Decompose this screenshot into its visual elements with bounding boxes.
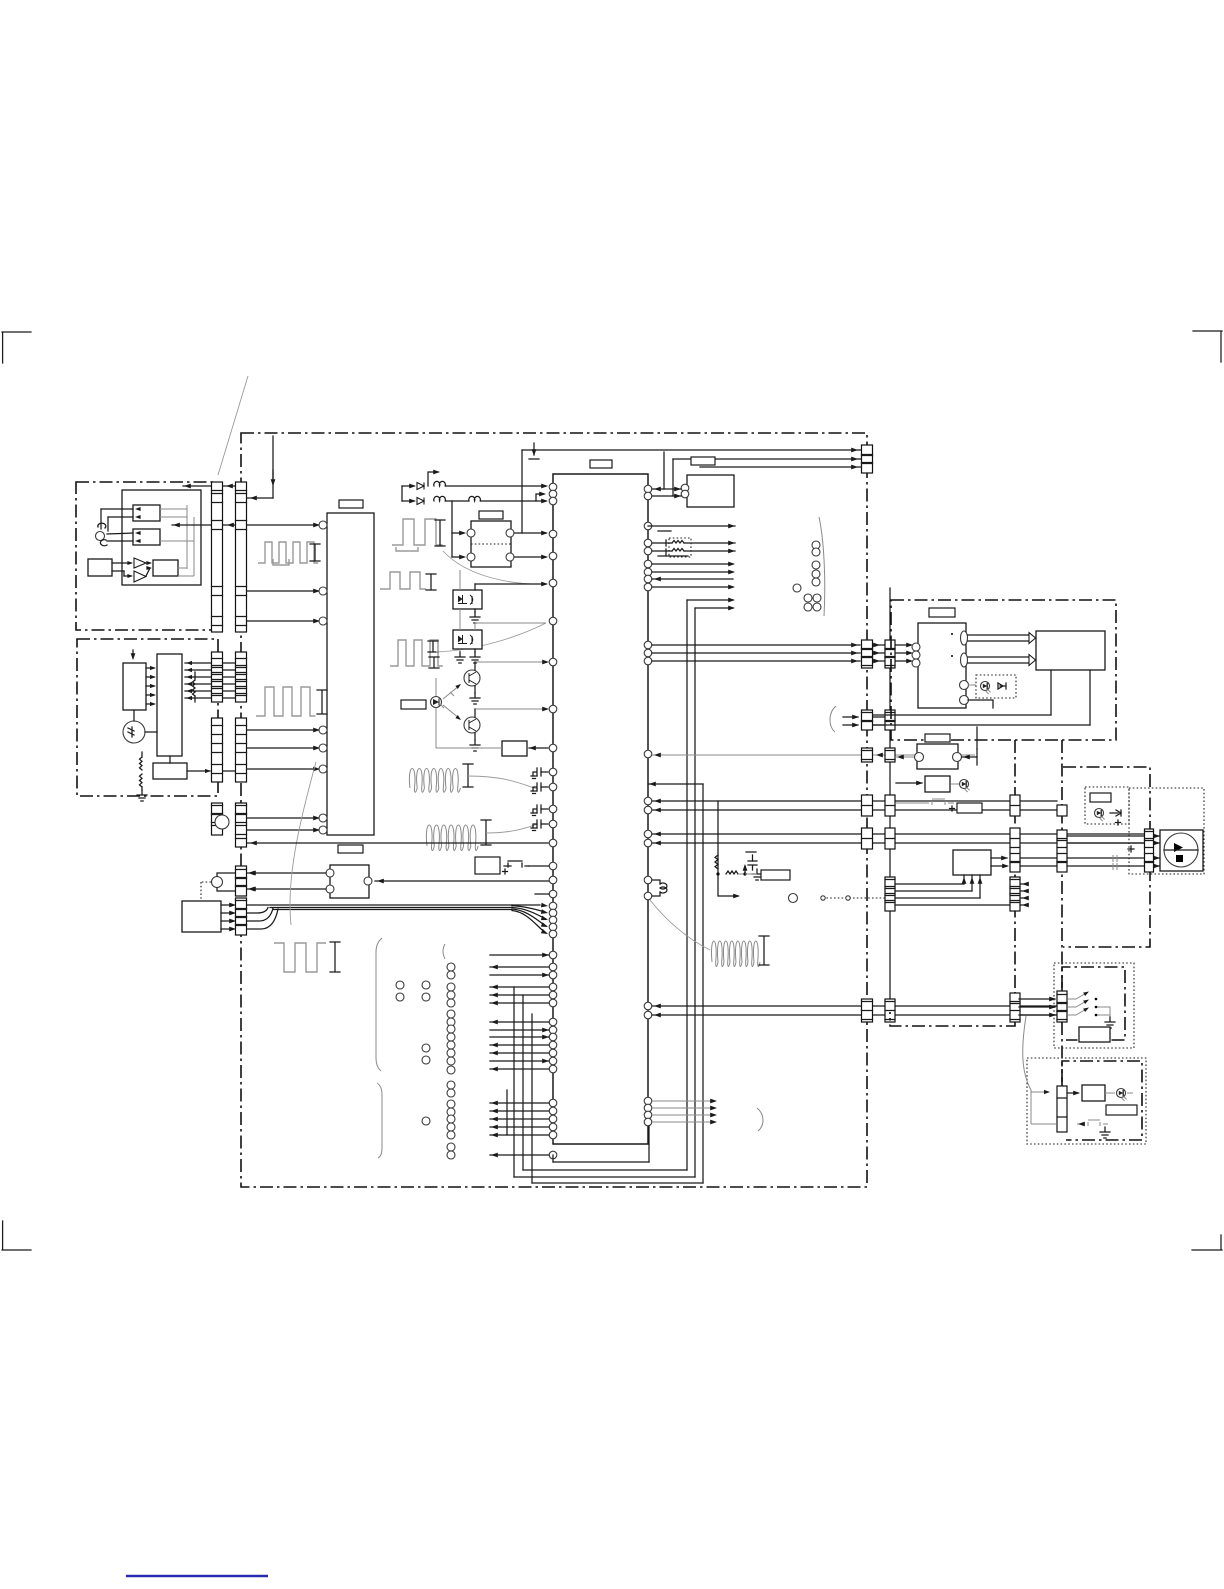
ground (470, 693, 480, 704)
IC pin (549, 1033, 557, 1041)
arrowhead (271, 479, 276, 486)
IC pin (644, 876, 652, 884)
arrowhead (906, 643, 913, 648)
bar2 seg5 (885, 828, 895, 849)
switch stroke (1068, 1008, 1088, 1015)
ground (470, 652, 480, 663)
connector block ticks (1057, 995, 1067, 1020)
wire (223, 770, 235, 772)
wire (490, 986, 549, 988)
IC pin (549, 820, 557, 828)
arrowhead (851, 448, 858, 453)
block pin (319, 521, 327, 529)
arrowhead (710, 1099, 717, 1104)
wire (529, 865, 549, 867)
fan wire (512, 909, 546, 926)
wire (185, 697, 211, 699)
vertical wire (521, 450, 523, 533)
transistor Q2 (464, 717, 480, 733)
tick (665, 540, 667, 555)
coil L1 (409, 769, 460, 793)
wire (490, 1060, 549, 1062)
IC pin (549, 1107, 557, 1115)
connector block ticks (885, 880, 895, 903)
arrowhead (851, 457, 858, 462)
wire (247, 747, 318, 749)
IC pin (644, 657, 652, 665)
arrowhead (710, 1113, 717, 1118)
arrowhead (654, 1004, 661, 1009)
wire (183, 485, 211, 487)
IC pin (549, 971, 557, 979)
IC pin (644, 892, 652, 900)
bus arrowheads (1029, 633, 1036, 666)
wire (459, 649, 461, 652)
wire (247, 829, 318, 831)
free circle (812, 548, 820, 556)
dash-dot box B (77, 639, 218, 796)
tall bracket (377, 1083, 382, 1158)
IC pin (549, 876, 557, 884)
grid circle (447, 1089, 455, 1097)
crop mark bottom-right (1192, 1235, 1222, 1250)
IC pin (549, 916, 557, 924)
IC pin (644, 806, 652, 814)
wire (490, 1134, 549, 1136)
arrowhead (226, 484, 233, 489)
wire (968, 700, 993, 708)
arrowhead (654, 832, 661, 837)
wire (515, 556, 546, 558)
arrowhead (916, 781, 923, 786)
elbow (718, 874, 738, 896)
arrowhead (1154, 841, 1160, 845)
dotted LED box (976, 675, 1016, 698)
grid circle (447, 971, 455, 979)
wire (843, 724, 858, 726)
arrowhead (227, 523, 234, 528)
wire (124, 575, 131, 577)
connector block ticks (236, 901, 247, 926)
wire (1067, 835, 1144, 837)
junction (716, 872, 719, 875)
leader (486, 824, 538, 833)
down-arrow mark (529, 443, 539, 459)
arrowhead (491, 1125, 498, 1130)
wire (648, 525, 735, 527)
wire (896, 660, 911, 662)
connector block ticks (236, 806, 247, 839)
IC pin (644, 1097, 652, 1105)
grid circle (447, 963, 455, 971)
wire (247, 524, 318, 526)
crop mark top-left (2, 332, 31, 363)
vertical (672, 459, 674, 496)
wire (895, 904, 1010, 906)
arrowhead (491, 965, 498, 970)
long vertical (686, 600, 688, 1170)
arrowhead (491, 1001, 498, 1006)
label box (957, 803, 982, 813)
resistor (672, 549, 684, 552)
wire (490, 1068, 549, 1070)
plus (950, 806, 955, 811)
wire (446, 500, 468, 502)
IC pin (644, 797, 652, 805)
wrap wire (553, 1161, 649, 1163)
wire (223, 697, 235, 699)
grid circle (447, 1025, 455, 1033)
bus wire (700, 466, 861, 468)
box T1 (687, 475, 734, 507)
driver box (157, 654, 182, 756)
arrowhead (978, 877, 983, 884)
resistor (726, 871, 738, 874)
arrowhead (249, 887, 256, 892)
arrowhead (250, 841, 257, 846)
fan wire (512, 904, 540, 906)
IC pin (644, 539, 652, 547)
wire (744, 866, 746, 874)
switch stroke (1068, 992, 1088, 999)
IC pin (549, 1026, 557, 1034)
switch common (1096, 1007, 1110, 1017)
box F (925, 776, 950, 792)
footer rule (blue) (126, 1575, 268, 1577)
grid circle (447, 1131, 455, 1139)
connector block ticks (1010, 1002, 1020, 1020)
connector block ticks (862, 649, 873, 666)
arrowhead (377, 879, 384, 884)
dotted box I (1027, 1058, 1146, 1144)
IC pin (644, 641, 652, 649)
box pin (326, 869, 334, 877)
wire (529, 747, 548, 749)
bracket (759, 936, 769, 965)
arrowhead (150, 675, 156, 679)
wire (452, 556, 464, 558)
grid circle (447, 1018, 455, 1026)
wire (141, 752, 143, 757)
dotted box H (1054, 963, 1134, 1048)
free circle (804, 594, 812, 602)
wire (490, 1110, 549, 1112)
wire (652, 571, 733, 573)
connector block ticks (885, 713, 895, 722)
wire (474, 709, 476, 717)
border bar seg2 (236, 652, 247, 702)
arrowhead (248, 871, 255, 876)
IC pin (549, 552, 557, 560)
wire (474, 662, 476, 670)
sub-box (153, 763, 187, 779)
IC pin (549, 1057, 557, 1065)
IC pin (644, 839, 652, 847)
arrowhead (970, 877, 975, 884)
right border seg4 (862, 795, 873, 816)
label box (1090, 793, 1111, 802)
small bracket (443, 944, 445, 959)
wire (979, 875, 981, 898)
wire (221, 912, 234, 914)
bus wire (522, 449, 861, 451)
wire (446, 485, 546, 487)
arrowhead (186, 661, 192, 665)
wire (895, 890, 972, 892)
bundle wire (270, 907, 512, 909)
arrowhead (186, 689, 192, 693)
LED (1117, 1089, 1127, 1102)
wire (490, 1052, 549, 1054)
vertical wire (531, 1014, 533, 1183)
wire (160, 540, 194, 542)
label box (479, 511, 503, 519)
arrowhead (542, 1035, 549, 1040)
arrowhead (186, 682, 192, 686)
arrowhead (229, 903, 236, 908)
IC pin (549, 490, 557, 498)
wire (971, 875, 973, 891)
dot circle (846, 896, 850, 900)
arrowhead (1044, 1090, 1050, 1094)
cap lead (541, 771, 548, 773)
border bar seg5 (236, 866, 247, 896)
arrowhead (127, 574, 133, 578)
bus wire (652, 809, 1057, 811)
connector block ticks (236, 659, 247, 696)
down arrow (132, 650, 134, 658)
IC pin (549, 909, 557, 917)
wire (474, 609, 476, 612)
waveform W4 (390, 640, 443, 666)
wire (247, 620, 318, 622)
grid circle (447, 991, 455, 999)
arrowhead (876, 753, 883, 758)
border bar seg4 (236, 803, 247, 847)
resistor (672, 541, 684, 544)
free circle (813, 594, 821, 602)
free circle (812, 578, 820, 586)
small coil (660, 883, 667, 893)
cap lead (541, 823, 548, 825)
vertical (1050, 670, 1052, 715)
wire (247, 497, 273, 499)
arrowhead (1049, 1013, 1056, 1018)
bus wire (652, 842, 1144, 844)
arrowhead (541, 582, 548, 587)
arrowhead (433, 470, 440, 475)
arrowhead (313, 828, 320, 833)
vertical wire (522, 995, 524, 1170)
arrowhead (491, 1020, 498, 1025)
grid circle (447, 1143, 455, 1151)
curve bracket (819, 517, 825, 616)
wire (172, 524, 211, 526)
wire (1019, 1006, 1055, 1008)
arrowhead (542, 953, 549, 958)
arrowhead (654, 487, 661, 492)
bus wire (652, 833, 1144, 835)
wire (112, 562, 131, 564)
dotted midline (471, 543, 511, 545)
arrowhead (654, 841, 661, 846)
circle connector C1 (212, 877, 223, 888)
wire (185, 676, 211, 678)
arrowhead (1049, 1005, 1056, 1010)
arrowhead (897, 755, 904, 760)
arrowhead (491, 1051, 498, 1056)
gray wire (652, 1100, 715, 1102)
cap ground (531, 828, 537, 831)
wire (490, 1021, 549, 1023)
bus wire (652, 800, 1057, 802)
wire (873, 724, 1090, 726)
grid circle (422, 981, 430, 989)
wire (963, 875, 965, 884)
wire (873, 724, 884, 726)
right border seg3 (862, 748, 873, 762)
arrowhead (409, 499, 416, 504)
arrowhead (491, 1153, 498, 1158)
grid circle (396, 993, 404, 1001)
grid circle (447, 1010, 455, 1018)
arrowhead (186, 675, 192, 679)
free circle (813, 603, 821, 611)
block pin (319, 617, 327, 625)
ground (470, 612, 480, 623)
grid circle (422, 1044, 430, 1052)
plus (1116, 820, 1121, 825)
small coil (434, 481, 446, 486)
right border seg0 (862, 445, 873, 473)
free circle (804, 603, 812, 611)
arrowhead (459, 555, 466, 560)
wire (223, 683, 235, 685)
vertical wire (506, 1090, 508, 1135)
connector block ticks (885, 838, 895, 840)
connector block ticks (1010, 880, 1020, 903)
wire (752, 855, 754, 861)
bus wire (652, 652, 860, 654)
wire (223, 485, 235, 487)
connector block ticks (236, 870, 247, 887)
wire (107, 540, 133, 542)
cap ground (531, 776, 537, 779)
arrowhead (491, 1067, 498, 1072)
wire (145, 731, 157, 733)
arrowhead (541, 929, 549, 936)
vertical (663, 452, 665, 489)
wire (112, 570, 124, 572)
arrowhead (654, 1013, 661, 1018)
bar A seg1 (212, 482, 223, 632)
arrowhead (491, 1043, 498, 1048)
bus wire (673, 458, 861, 460)
IC pin (644, 583, 652, 591)
wire (1105, 1092, 1115, 1094)
connector block ticks (236, 726, 247, 774)
arrowhead (542, 660, 549, 665)
wire (652, 563, 733, 565)
capacitor (748, 861, 757, 870)
bracket (428, 641, 438, 652)
arrowhead (146, 561, 152, 565)
pin (467, 529, 475, 537)
IC pin (644, 547, 652, 555)
bus wire (652, 1014, 1057, 1016)
arrowhead (313, 728, 320, 733)
wire (474, 733, 476, 740)
bracket (463, 764, 473, 787)
wire (146, 562, 150, 564)
gray wire (459, 570, 461, 590)
arrowhead (649, 782, 656, 787)
wire (745, 873, 757, 875)
wire (107, 533, 133, 534)
bar2 seg3 (885, 748, 895, 762)
pin (960, 696, 969, 705)
box E (917, 744, 958, 769)
IC pin (644, 1011, 652, 1019)
wire (146, 685, 154, 687)
leader line (218, 376, 248, 475)
IC pin (549, 930, 557, 938)
arrowhead (529, 746, 536, 751)
connector block ticks (862, 751, 873, 760)
bar4 seg1 (1057, 805, 1067, 816)
wire (695, 607, 733, 609)
diode mark (1110, 810, 1121, 816)
grid circle (447, 1100, 455, 1108)
border bar seg6 (236, 898, 247, 935)
arrowhead (542, 1028, 549, 1033)
grid circle (447, 1123, 455, 1131)
sub-block (153, 560, 178, 576)
wire (490, 1002, 549, 1004)
gray wire (896, 802, 921, 804)
wire (1067, 1092, 1078, 1094)
wire (402, 485, 414, 487)
connector bar A (0, 0, 1, 1)
wire (490, 1029, 549, 1031)
push switch (921, 799, 954, 805)
oval pin (961, 653, 968, 667)
wire (490, 974, 549, 976)
capacitor (533, 820, 541, 828)
wire (1020, 890, 1028, 892)
wrap wire (532, 1182, 703, 1184)
wire (108, 516, 133, 518)
gray feeder (1023, 1016, 1031, 1124)
wire (1154, 865, 1159, 867)
IC pin (549, 744, 557, 752)
IC pin (644, 750, 652, 758)
arrowhead (250, 496, 257, 501)
connector block ticks (212, 726, 223, 774)
connector block ticks (212, 659, 223, 696)
arrowhead (150, 684, 156, 688)
bundle wire (273, 909, 512, 911)
wire (160, 508, 187, 510)
cap lead (541, 786, 548, 788)
wire (951, 783, 959, 785)
box G (953, 850, 991, 875)
grid circle (447, 1049, 455, 1057)
transistor Q1 (464, 670, 480, 686)
wire (896, 644, 911, 646)
motor mid line (1164, 849, 1198, 851)
arrowhead (313, 746, 320, 751)
